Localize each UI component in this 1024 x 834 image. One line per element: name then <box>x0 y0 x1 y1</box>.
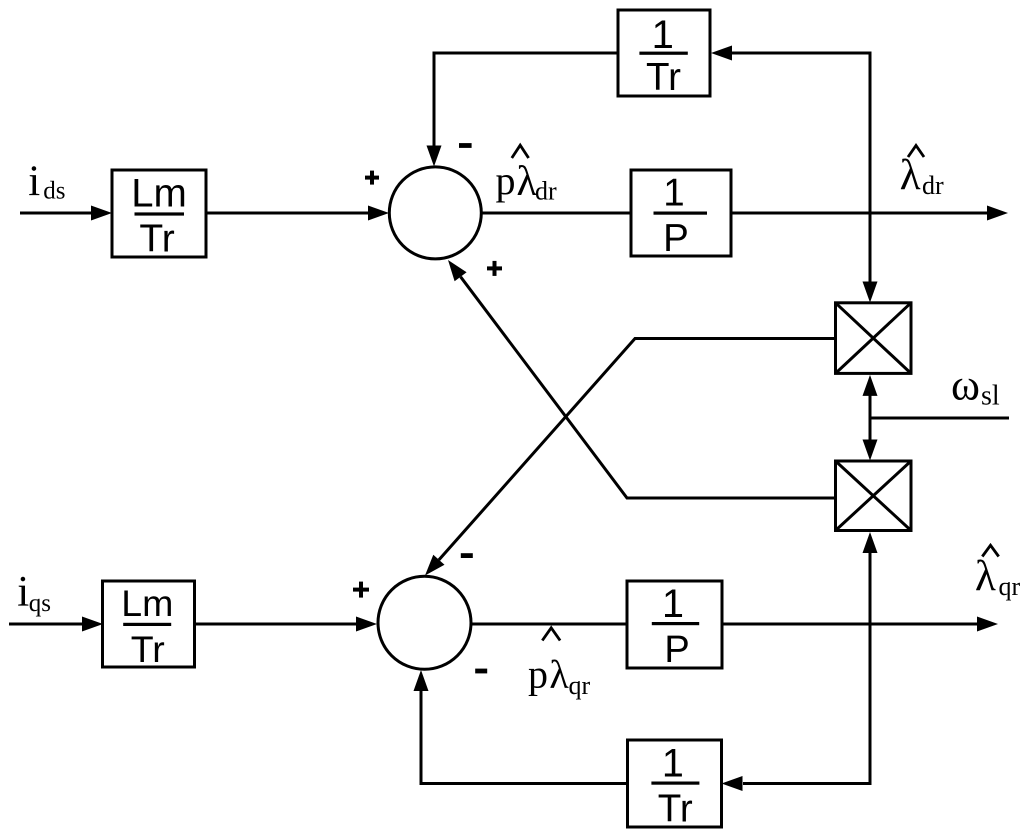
svg-text:P: P <box>663 217 689 260</box>
label i_ds (d-axis stator current input) <box>28 158 65 205</box>
arrowhead plus input of summing junction S2 <box>356 617 377 632</box>
svg-text:dr: dr <box>922 171 944 200</box>
svg-text:qs: qs <box>29 590 51 617</box>
arrowhead into block 1/Tr (bottom) right side <box>722 776 743 791</box>
svg-text:sl: sl <box>981 381 1000 412</box>
block 1/Tr (bottom) <box>628 740 722 830</box>
svg-text:λ: λ <box>900 152 921 199</box>
arrowhead into multiplier M1 bottom <box>863 375 878 396</box>
svg-text:Tr: Tr <box>646 56 681 99</box>
svg-text:ds: ds <box>43 178 65 205</box>
wire M1 output to cross-over diagonal <box>439 339 836 560</box>
wire bottom feedback from 1/Tr to corner <box>421 689 628 784</box>
svg-text:qr: qr <box>569 671 591 700</box>
block Lm/Tr (q-axis) <box>103 581 195 670</box>
arrowhead minus input of S2 bottom <box>414 670 429 691</box>
svg-text:dr: dr <box>535 177 557 206</box>
block Lm/Tr (d-axis) <box>112 170 206 261</box>
hat over lambda in p lambda_dr <box>512 145 529 158</box>
hat over lambda_dr output <box>908 146 924 158</box>
arrowhead into multiplier M2 top <box>863 440 878 461</box>
label p lambda_qr (output of S2) <box>528 652 591 700</box>
wire w_sl input from right edge <box>870 417 1009 420</box>
multiplier M1 (lambda_dr x w_sl) <box>836 303 912 374</box>
svg-text:i: i <box>28 158 40 205</box>
svg-text:Tr: Tr <box>139 218 174 261</box>
arrowhead output lambda_qr hat <box>977 617 998 632</box>
svg-text:λ: λ <box>975 553 996 600</box>
arrowhead into multiplier M1 top <box>863 282 878 303</box>
block 1/P (d-axis) <box>631 170 731 260</box>
label p lambda_dr hat (output of S1) <box>496 158 558 206</box>
label i_qs (q-axis stator current input) <box>17 569 51 617</box>
wire 1/P to output lambda_dr hat <box>731 212 987 215</box>
svg-text:1: 1 <box>662 582 684 626</box>
sign + at S2 left input <box>353 582 369 598</box>
svg-text:p: p <box>496 158 516 203</box>
wire 1/P to output lambda_qr hat <box>722 623 977 626</box>
svg-text:λ: λ <box>549 652 569 697</box>
svg-text:p: p <box>528 652 548 697</box>
wire w_sl down branch to M2 top <box>869 418 872 442</box>
sign + at S1 lower-right input <box>487 261 502 276</box>
svg-text:qr: qr <box>999 572 1021 601</box>
wire branch up from lambda_qr node to multiplier M2 <box>869 553 872 624</box>
block 1/Tr (top) <box>618 10 710 99</box>
wire top feedback from 1/Tr to corner <box>434 53 618 148</box>
svg-text:Lm: Lm <box>121 582 173 624</box>
svg-text:Lm: Lm <box>131 172 187 216</box>
wire input i_ds <box>20 212 93 215</box>
svg-text:1: 1 <box>662 742 684 786</box>
label lambda_dr hat (output) <box>900 152 944 200</box>
svg-text:P: P <box>664 629 689 671</box>
label w_sl (slip frequency input) <box>951 361 1000 412</box>
wire S2 to block 1/P (q-axis) <box>471 623 627 626</box>
svg-text:Tr: Tr <box>658 787 693 830</box>
svg-text:Tr: Tr <box>131 628 165 670</box>
wire Lm/Tr to summing junction (q-axis) <box>195 623 359 626</box>
arrowhead output lambda_dr hat <box>987 206 1008 221</box>
svg-text:ω: ω <box>951 361 980 410</box>
wire S1 to block 1/P (d-axis) <box>481 212 631 215</box>
sign - at S2 top input <box>461 553 473 558</box>
arrowhead into block Lm/Tr (d-axis) <box>91 206 112 221</box>
label lambda_qr hat (output) <box>975 553 1021 601</box>
svg-text:i: i <box>17 569 29 616</box>
wire branch down from lambda_dr node to multiplier M1 <box>869 213 872 284</box>
wire top feedback horizontal right segment <box>730 52 872 55</box>
wire branch up from output node to top feedback <box>869 53 872 213</box>
arrowhead into block Lm/Tr (q-axis) <box>82 617 103 632</box>
arrowhead plus input of S1 bottom (from M2) <box>448 260 467 281</box>
sign + at S1 left input <box>365 171 379 185</box>
summing junction S2 (q-axis) <box>378 576 471 669</box>
wire M2 output to cross-over diagonal <box>461 277 836 498</box>
block 1/P (q-axis) <box>627 581 722 671</box>
arrowhead plus input of summing junction S1 <box>368 206 389 221</box>
summing junction S1 (d-axis) <box>389 167 481 259</box>
multiplier M2 (lambda_qr x w_sl) <box>836 461 912 531</box>
arrowhead into block 1/Tr (top) right side <box>711 46 732 61</box>
sign - at S2 bottom input <box>475 669 487 674</box>
sign - at S1 top input <box>459 143 472 148</box>
arrowhead minus input of S2 top (from M1) <box>425 555 445 576</box>
svg-text:1: 1 <box>652 13 674 57</box>
arrowhead minus input of S1 top <box>427 146 442 167</box>
wire Lm/Tr to summing junction (d-axis) <box>206 212 370 215</box>
wire branch down from lambda_qr node to bottom feedback <box>743 624 870 784</box>
hat over lambda in p lambda_qr <box>542 628 560 641</box>
arrowhead into multiplier M2 bottom <box>863 532 878 553</box>
hat over lambda_qr output <box>982 545 998 556</box>
svg-text:1: 1 <box>663 172 684 215</box>
wire input i_qs <box>9 623 84 626</box>
wire w_sl up branch to M1 bottom <box>869 392 872 418</box>
